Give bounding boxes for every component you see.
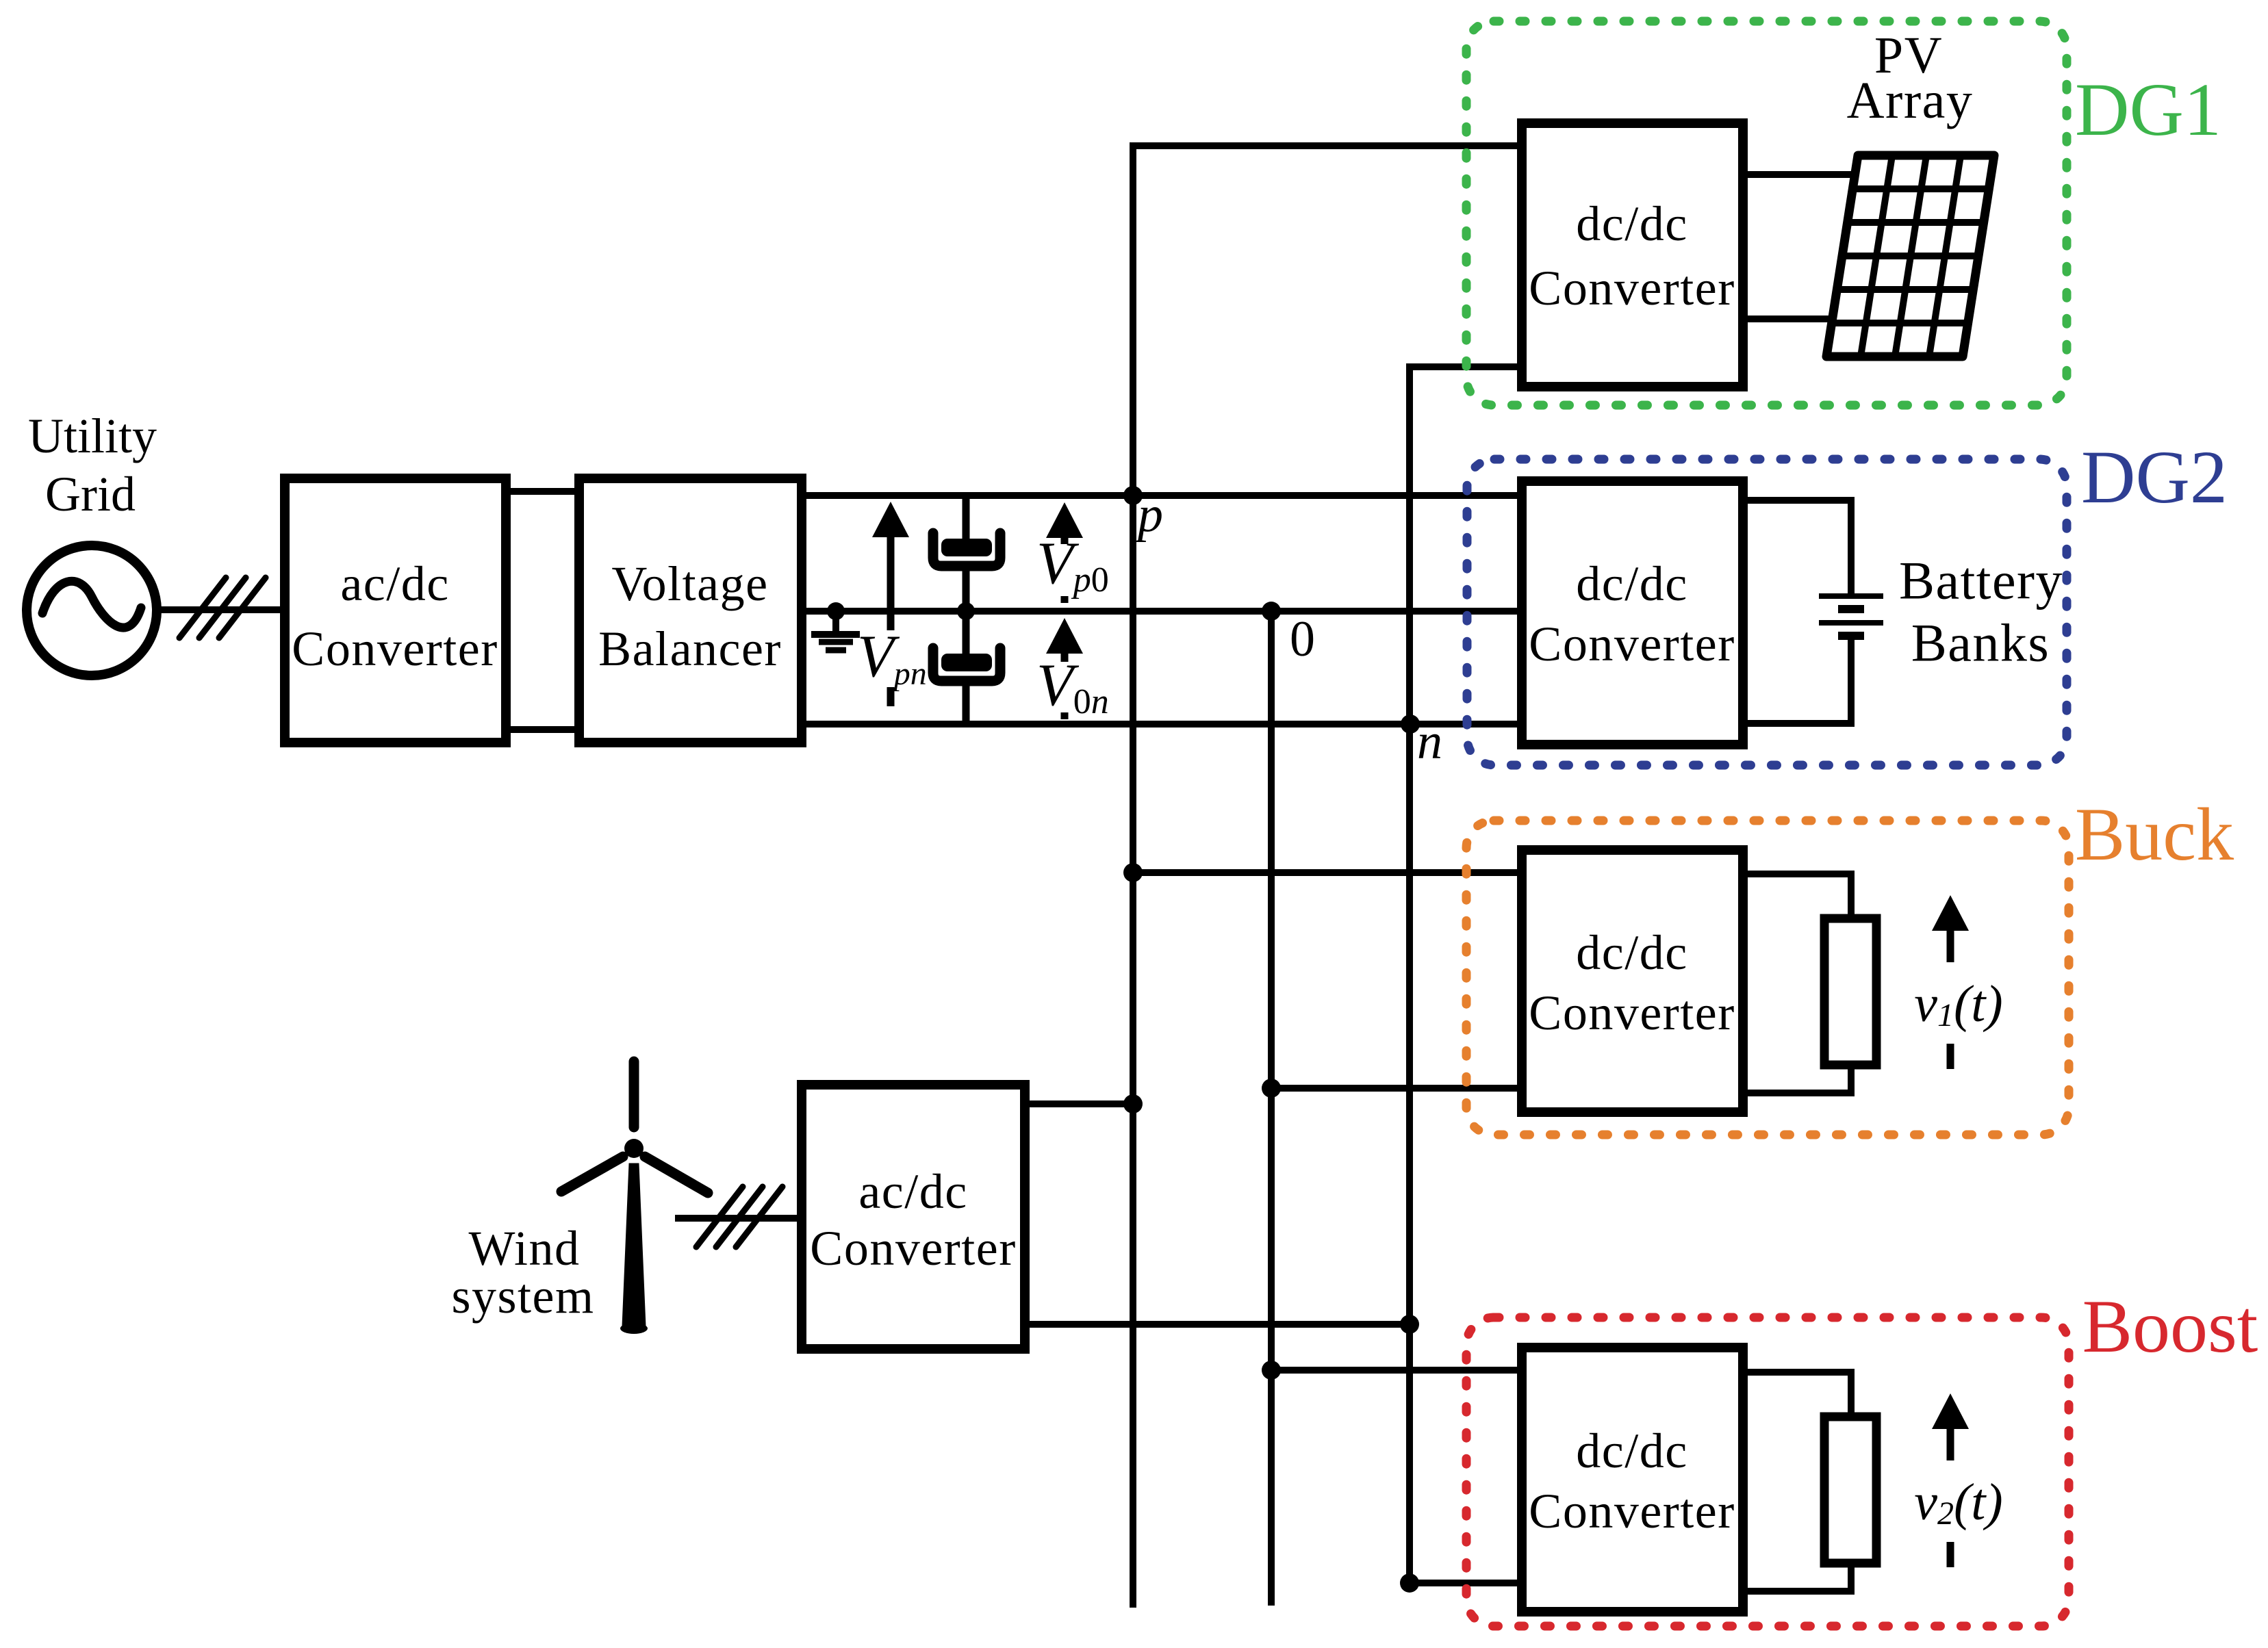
junction 0 bus / boost input — [1262, 1361, 1281, 1380]
svg-text:dc/dc: dc/dc — [1576, 1424, 1687, 1478]
svg-text:system: system — [451, 1269, 594, 1324]
wire boost top input from 0 bus — [1271, 1367, 1522, 1374]
wire boost to load R2 top — [1743, 1372, 1851, 1417]
wire n bus vertical — [1410, 367, 1522, 1583]
wind turbine icon — [561, 1061, 708, 1334]
junction wind output / p bus — [1123, 1094, 1143, 1113]
wire p bus vertical — [1133, 146, 1522, 1608]
wire n rail horizontal — [802, 721, 1522, 728]
node n — [1401, 714, 1420, 734]
svg-text:DG2: DG2 — [2081, 435, 2228, 519]
wire battery bottom to DG2 — [1743, 639, 1851, 723]
voltage arrow v2(t) — [1914, 1393, 2002, 1567]
svg-text:Wind: Wind — [468, 1221, 580, 1276]
wire DG2 to battery top — [1743, 500, 1851, 595]
svg-text:ac/dc: ac/dc — [340, 556, 449, 611]
wire p rail horizontal — [802, 492, 1522, 499]
svg-text:dc/dc: dc/dc — [1576, 196, 1687, 251]
wire 0 rail horizontal — [802, 608, 1522, 615]
three-phase slashes on wind wire — [696, 1187, 782, 1247]
label: Utility Grid — [28, 409, 157, 522]
svg-text:Buck: Buck — [2075, 793, 2234, 876]
wire wind turbine to ac/dc — [675, 1215, 802, 1222]
junction p bus / buck input — [1123, 863, 1143, 882]
svg-text:Boost: Boost — [2082, 1285, 2258, 1368]
voltage arrow v1(t) — [1914, 895, 2002, 1069]
dc/dc converter U5 (DG2) — [1522, 481, 1743, 745]
wire buck to load R1 top — [1743, 874, 1851, 918]
svg-text:Grid: Grid — [45, 467, 136, 522]
svg-text:Converter: Converter — [1529, 617, 1735, 671]
svg-text:Converter: Converter — [810, 1221, 1016, 1276]
wire load R2 bottom to boost — [1743, 1563, 1851, 1591]
svg-text:Converter: Converter — [1529, 261, 1735, 316]
svg-text:dc/dc: dc/dc — [1576, 925, 1687, 980]
node junction cap/0 rail — [957, 602, 975, 620]
ac/dc converter U1 (grid-side) — [285, 478, 506, 743]
svg-text:Banks: Banks — [1911, 613, 2050, 673]
svg-text:n: n — [1417, 714, 1442, 770]
svg-text:Converter: Converter — [292, 621, 498, 676]
wire buck bottom input from 0 bus — [1271, 1085, 1522, 1092]
voltage arrow V_0n — [1036, 618, 1109, 721]
dc/dc converter U6 (Buck) — [1522, 850, 1743, 1112]
voltage arrow V_p0 — [1036, 502, 1109, 603]
PV array panel — [1826, 155, 1994, 357]
Boost dashed enclosure — [1466, 1317, 2069, 1626]
wire wind converter to p bus — [1025, 1100, 1133, 1107]
voltage arrow V_pn — [857, 502, 927, 706]
svg-text:v1(t): v1(t) — [1914, 975, 2002, 1033]
svg-text:p: p — [1134, 487, 1163, 543]
wire DG1 converter to PV top — [1743, 171, 1857, 178]
capacitor C1 (p to 0) — [933, 495, 1000, 611]
svg-text:Converter: Converter — [1529, 1484, 1735, 1538]
svg-text:dc/dc: dc/dc — [1576, 556, 1687, 611]
resistor R1 (buck load) — [1824, 918, 1876, 1065]
ground — [811, 602, 860, 650]
dc/dc converter U7 (Boost) — [1522, 1348, 1743, 1612]
svg-text:Balancer: Balancer — [598, 621, 782, 676]
ac/dc converter U3 (wind-side) — [802, 1085, 1025, 1349]
node 0 — [1262, 602, 1281, 621]
capacitor C2 (0 to n) — [933, 611, 1000, 724]
three-phase slashes on grid wire — [179, 578, 266, 638]
Buck dashed enclosure — [1466, 821, 2069, 1135]
wire load R1 bottom to buck — [1743, 1065, 1851, 1093]
svg-text:Voltage: Voltage — [611, 556, 768, 611]
voltage balancer U2 — [579, 478, 802, 743]
dc/dc converter U4 (DG1) — [1522, 123, 1743, 387]
wire ac/dc to voltage balancer top — [506, 488, 579, 495]
label: Battery Banks — [1899, 551, 2063, 673]
svg-text:ac/dc: ac/dc — [858, 1164, 967, 1219]
wire grid to ac/dc converter — [157, 606, 285, 613]
wire DG1 converter to PV bottom — [1743, 316, 1834, 322]
svg-text:Converter: Converter — [1529, 986, 1735, 1040]
DG1 dashed enclosure — [1466, 21, 2067, 405]
svg-text:Utility: Utility — [28, 409, 157, 463]
wire buck top input from p bus — [1133, 869, 1522, 876]
wire ac/dc to voltage balancer bottom — [506, 726, 579, 733]
DG2 dashed enclosure — [1467, 459, 2067, 765]
wire boost bottom input from n bus — [1410, 1580, 1522, 1586]
battery banks symbol — [1819, 596, 1883, 636]
svg-text:0: 0 — [1290, 611, 1315, 667]
junction wind output / n bus — [1400, 1315, 1419, 1334]
ac source V_grid (utility grid sine source) — [27, 545, 157, 675]
junction 0 bus / buck input — [1262, 1079, 1281, 1098]
resistor R2 (boost load) — [1824, 1417, 1876, 1563]
label: Wind system — [451, 1221, 594, 1324]
svg-text:v2(t): v2(t) — [1914, 1473, 2002, 1532]
label: PV Array — [1847, 27, 1974, 129]
wire wind converter to n bus — [1025, 1321, 1410, 1328]
wire 0 bus vertical — [1268, 611, 1275, 1606]
junction n bus / boost input — [1400, 1573, 1419, 1593]
svg-text:DG1: DG1 — [2075, 68, 2221, 151]
svg-text:Array: Array — [1847, 72, 1974, 129]
node p — [1123, 486, 1143, 505]
svg-text:Battery: Battery — [1899, 551, 2063, 610]
